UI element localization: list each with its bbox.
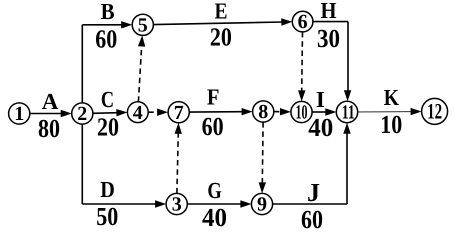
dummy arrow (6-10) dashed xyxy=(298,32,305,102)
svg-text:3: 3 xyxy=(172,194,182,216)
node 12 xyxy=(422,98,448,124)
label C xyxy=(101,87,114,112)
activity F arrow (7-8) xyxy=(189,108,252,115)
label J xyxy=(307,178,320,207)
svg-text:40: 40 xyxy=(308,113,333,142)
label 60 (B) xyxy=(95,25,117,54)
label K xyxy=(384,85,399,110)
node 3 xyxy=(166,193,187,215)
svg-text:2: 2 xyxy=(77,103,87,125)
dummy arrow (4-7) dashed xyxy=(148,109,168,116)
node 2 xyxy=(72,103,93,125)
node 1 xyxy=(9,103,30,125)
svg-text:E: E xyxy=(215,0,228,23)
activity D wire (2-3) xyxy=(82,124,166,208)
svg-text:4: 4 xyxy=(133,102,143,124)
label F xyxy=(207,85,220,110)
label B xyxy=(101,0,115,24)
activity B wire (2-5) xyxy=(82,21,132,103)
node 8 xyxy=(253,101,274,123)
node 10 xyxy=(291,101,312,123)
label 10 (K) xyxy=(380,110,402,139)
svg-text:20: 20 xyxy=(97,113,119,142)
svg-text:30: 30 xyxy=(317,24,340,53)
dummy arrow (8-10) dashed xyxy=(274,108,291,115)
activity K arrow (11-12) xyxy=(358,108,422,115)
label G xyxy=(207,178,221,203)
svg-text:D: D xyxy=(100,177,115,202)
svg-text:1: 1 xyxy=(14,103,24,125)
svg-text:5: 5 xyxy=(138,14,148,36)
activity I arrow (10-11) xyxy=(312,108,336,115)
svg-text:A: A xyxy=(42,89,59,114)
svg-text:40: 40 xyxy=(202,203,227,232)
svg-text:J: J xyxy=(307,178,320,207)
activity A arrow (1-2) xyxy=(30,110,72,117)
svg-text:10: 10 xyxy=(380,110,402,139)
svg-text:G: G xyxy=(207,178,221,203)
node 9 xyxy=(251,193,272,215)
svg-text:7: 7 xyxy=(174,102,184,124)
label E xyxy=(215,0,228,23)
svg-text:50: 50 xyxy=(96,202,118,231)
svg-text:8: 8 xyxy=(258,101,268,123)
label 60 (J) xyxy=(301,205,323,234)
svg-text:6: 6 xyxy=(298,11,308,33)
label 40 (I) xyxy=(308,113,333,142)
node 5 xyxy=(132,14,153,36)
label 40 (G) xyxy=(202,203,227,232)
svg-text:12: 12 xyxy=(427,99,442,124)
svg-text:B: B xyxy=(101,0,115,24)
label 50 xyxy=(96,202,118,231)
dummy arrow (8-9) dashed xyxy=(259,122,266,193)
svg-text:60: 60 xyxy=(202,112,224,141)
svg-text:11: 11 xyxy=(342,102,355,124)
activity J wire (9-11) xyxy=(273,123,351,204)
svg-text:H: H xyxy=(321,0,337,23)
activity E arrow (5-6) xyxy=(153,18,292,25)
svg-text:60: 60 xyxy=(95,25,117,54)
dummy arrow (4-5) dashed xyxy=(138,35,145,101)
svg-text:10: 10 xyxy=(296,102,308,124)
label 20 (C) xyxy=(97,113,119,142)
svg-text:80: 80 xyxy=(38,114,60,143)
label 30 xyxy=(317,24,340,53)
svg-text:K: K xyxy=(384,85,399,110)
svg-text:9: 9 xyxy=(257,194,267,216)
activity C arrow (2-4) xyxy=(93,109,128,116)
node 7 xyxy=(168,102,189,124)
activity H wire (6-11) xyxy=(313,22,351,102)
svg-text:I: I xyxy=(316,87,325,112)
label 20 (E) xyxy=(210,23,232,52)
label D xyxy=(100,177,115,202)
node 11 xyxy=(336,101,357,123)
svg-text:20: 20 xyxy=(210,23,232,52)
node 4 xyxy=(127,102,148,124)
activity G arrow (3-9) xyxy=(187,200,251,207)
node 6 xyxy=(292,11,313,33)
label I xyxy=(316,87,325,112)
dummy arrow (3-7) dashed xyxy=(175,123,182,194)
svg-text:60: 60 xyxy=(301,205,323,234)
label H xyxy=(321,0,337,23)
label A xyxy=(42,89,59,114)
label 80 xyxy=(38,114,60,143)
svg-text:F: F xyxy=(207,85,220,110)
label 60 (F) xyxy=(202,112,224,141)
svg-text:C: C xyxy=(101,87,114,112)
